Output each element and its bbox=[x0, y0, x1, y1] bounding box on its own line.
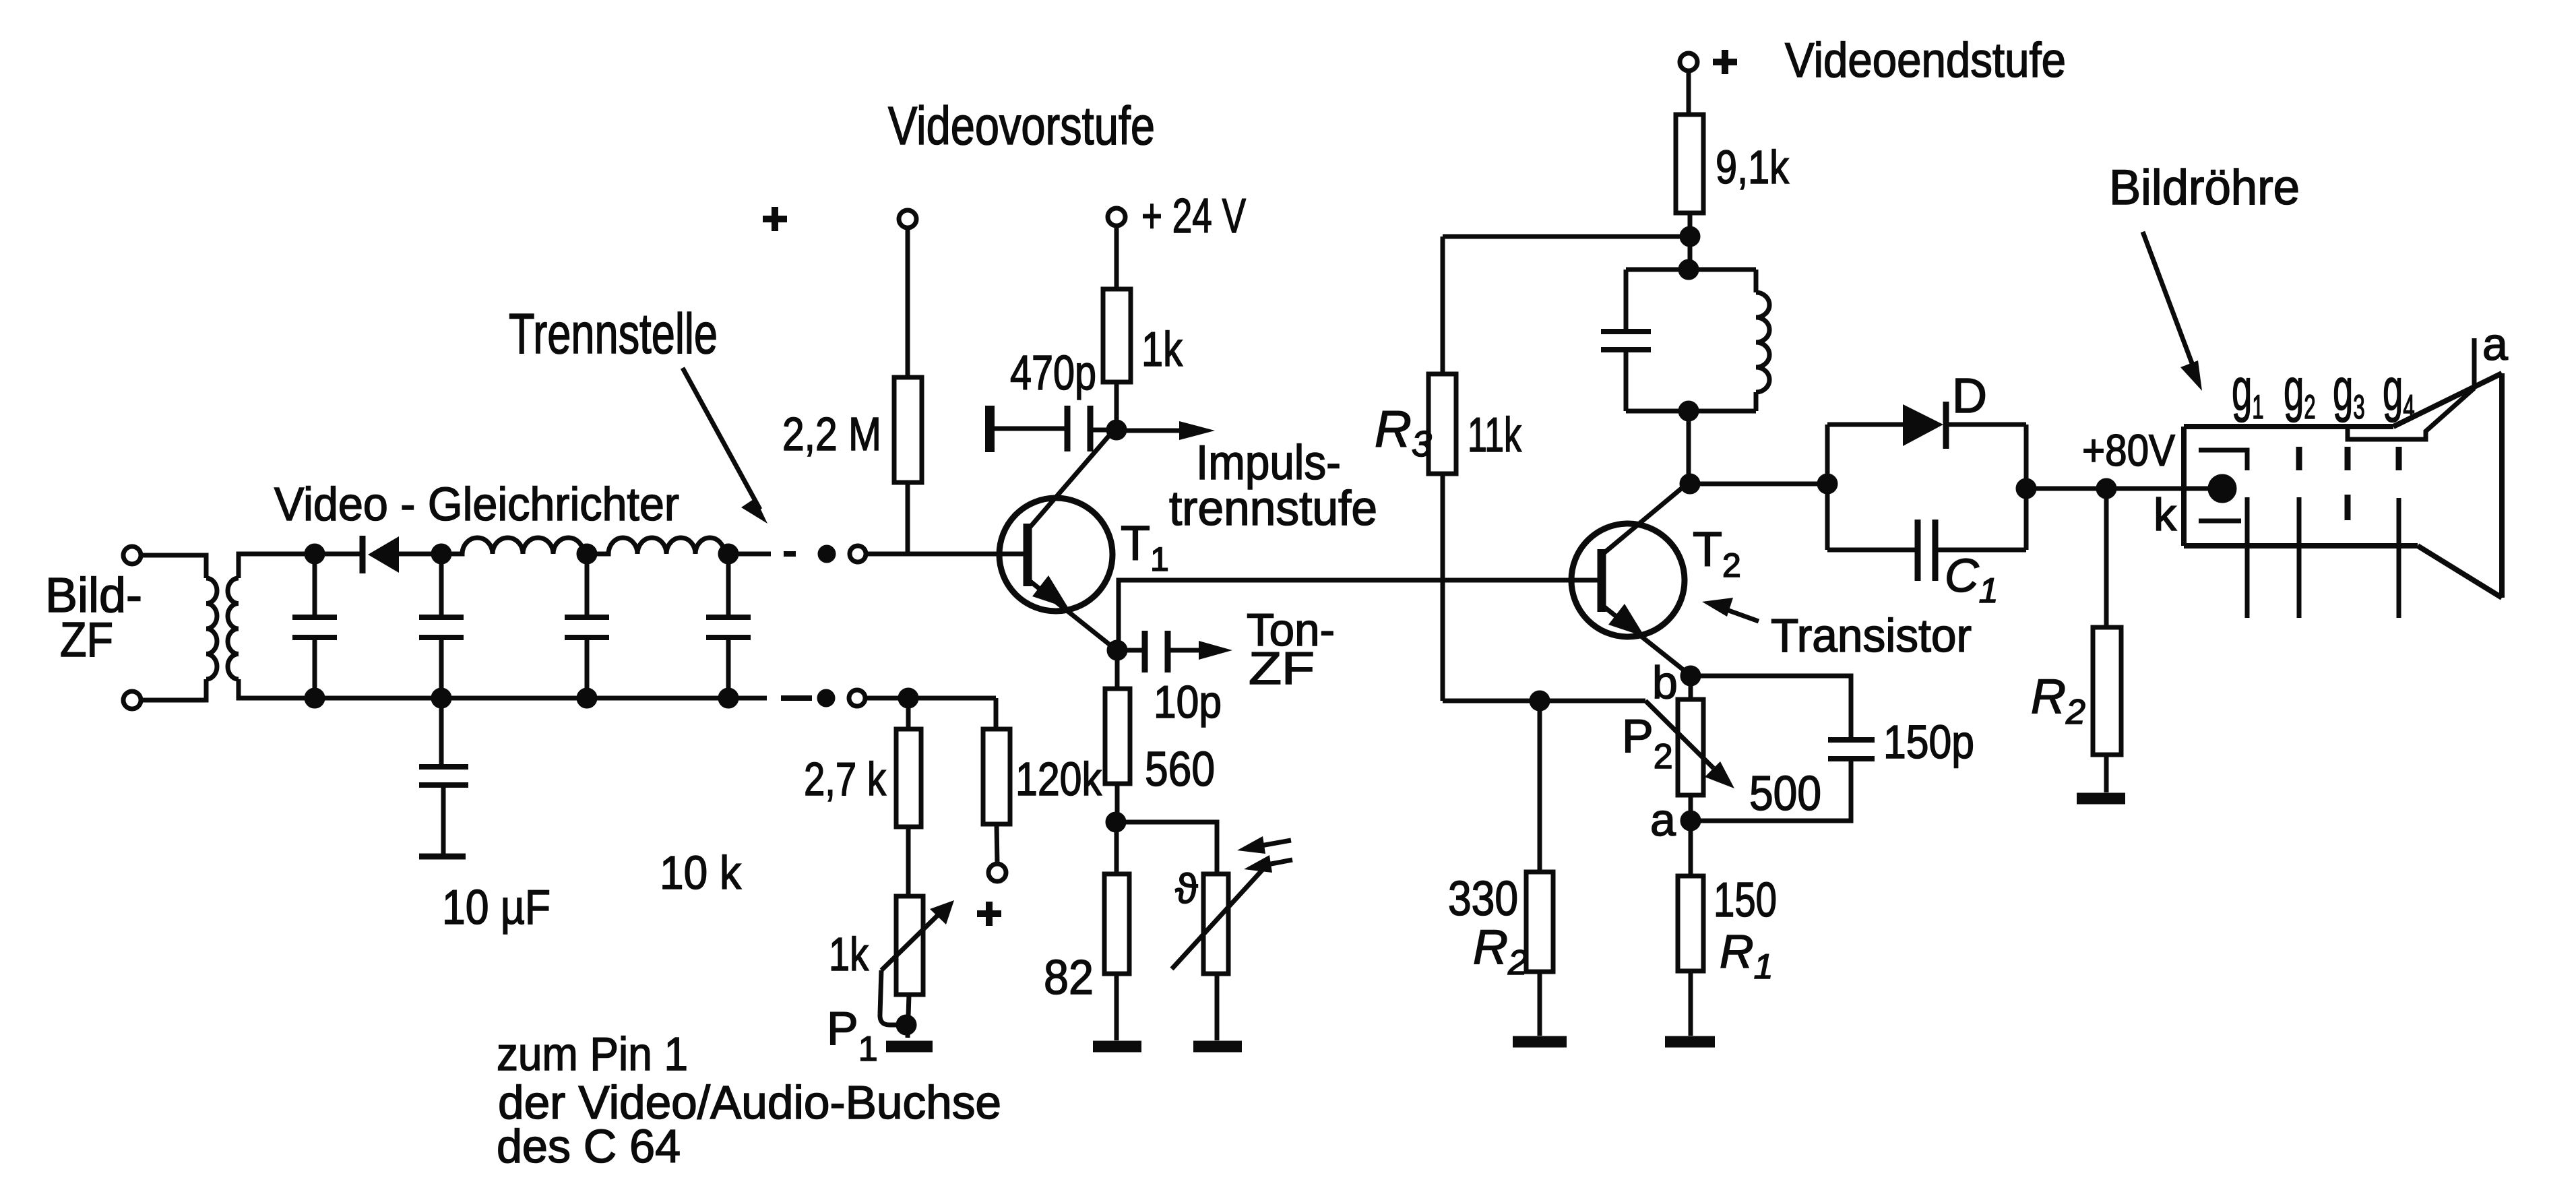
svg-text:Transistor: Transistor bbox=[1771, 609, 1972, 662]
terminal circle below 120k bbox=[988, 864, 1006, 881]
node: bottom rail junction 4 bbox=[720, 690, 736, 706]
capacitor filter C-d bottom lead bbox=[726, 639, 731, 698]
resistor 560 body bbox=[1105, 689, 1130, 784]
tank circuit bottom side bbox=[1626, 409, 1756, 414]
wire b node to P2 bbox=[1689, 676, 1693, 699]
node: 560/82 junction bbox=[1108, 814, 1124, 830]
plus sign at Videoendstufe terminal bbox=[1713, 50, 1737, 74]
resistor 1k body (T1 collector) bbox=[1103, 289, 1131, 382]
node: top rail junction 2 bbox=[433, 546, 449, 562]
tank circuit top side bbox=[1626, 268, 1756, 272]
transistor T2 emitter lead bbox=[1604, 606, 1689, 675]
Videoendstufe supply terminal bbox=[1680, 53, 1697, 71]
svg-text:T2: T2 bbox=[1693, 523, 1741, 584]
capacitor 10uF bottom lead bbox=[441, 787, 446, 854]
+24V terminal circle bbox=[1108, 208, 1125, 226]
node: T1 emitter junction bbox=[1109, 642, 1125, 658]
svg-text:D: D bbox=[1952, 369, 1987, 423]
node: top rail junction 3 bbox=[579, 546, 595, 562]
resistor 330 R2 body bbox=[1526, 872, 1553, 972]
wire 2.2M to signal rail bbox=[906, 482, 910, 552]
svg-text:zum Pin 1: zum Pin 1 bbox=[497, 1028, 688, 1080]
transistor T1 base lead bbox=[1019, 552, 1032, 557]
capacitor 150p plates bbox=[1828, 740, 1875, 759]
capacitor filter C-a plates bbox=[292, 617, 337, 637]
plus sign near 2.2M terminal bbox=[763, 207, 787, 231]
ground P1 bbox=[886, 1041, 933, 1053]
svg-text:120k: 120k bbox=[1015, 753, 1102, 805]
resistor 82 body bbox=[1104, 874, 1129, 974]
svg-text:82: 82 bbox=[1044, 951, 1094, 1005]
transformer primary winding bbox=[206, 578, 217, 679]
wire 150 to ground bbox=[1689, 971, 1693, 1036]
wire junction to thermistor bbox=[1116, 822, 1217, 874]
node: bottom rail junction 2 bbox=[433, 690, 449, 706]
transistor T1 base bar bbox=[1024, 524, 1032, 586]
svg-text:Bildröhre: Bildröhre bbox=[2109, 160, 2300, 215]
svg-text:ϑ: ϑ bbox=[1175, 866, 1198, 912]
CRT anode lead a bbox=[2472, 338, 2477, 388]
node: T2 emitter junction b bbox=[1683, 668, 1699, 684]
capacitor C1 plates bbox=[1918, 520, 1935, 581]
grid g4 dash bbox=[2396, 447, 2402, 470]
node: T1 collector junction bbox=[1108, 422, 1125, 438]
thermistor light arrows bbox=[1257, 840, 1291, 846]
svg-text:R2: R2 bbox=[1473, 920, 1528, 982]
wire top rail to Trennstelle gap bbox=[728, 552, 771, 557]
wire emitter node to 10p bbox=[1117, 648, 1142, 653]
D / C1 parallel box left side bbox=[1825, 425, 1830, 550]
D/C1 box right side bbox=[2024, 425, 2029, 550]
svg-text:trennstufe: trennstufe bbox=[1169, 482, 1377, 536]
transistor T2 base lead bbox=[1599, 578, 1606, 583]
ground thermistor bbox=[1193, 1041, 1242, 1053]
wire terminal to 9.1k bbox=[1687, 71, 1691, 115]
arrow to Ton-ZF bbox=[1170, 648, 1203, 653]
svg-text:a: a bbox=[1650, 794, 1676, 846]
Trennstelle dash mark bottom rail bbox=[781, 695, 812, 701]
transistor T2 collector lead bbox=[1604, 482, 1689, 553]
svg-text:500: 500 bbox=[1749, 767, 1821, 821]
node: bottom rail junction for 2.7k bbox=[900, 690, 916, 706]
wire R2 to ground bbox=[2104, 755, 2109, 792]
wire 330 to ground bbox=[1538, 972, 1542, 1036]
capacitor filter C-b bottom lead bbox=[439, 639, 444, 698]
capacitor filter C-a bottom lead bbox=[313, 639, 317, 698]
CRT screen right edge bbox=[2499, 373, 2505, 598]
grid g1 lower arm bbox=[2199, 519, 2241, 524]
wire top rail to T1 base bbox=[867, 552, 1019, 557]
CRT flare bottom diagonal bbox=[2418, 546, 2502, 598]
grid g2 lead bbox=[2297, 497, 2302, 618]
transistor T2 circle bbox=[1571, 524, 1685, 637]
svg-text:2,2 M: 2,2 M bbox=[782, 408, 881, 460]
grid g4 lead bbox=[2397, 498, 2401, 618]
CRT neck left wall bbox=[2181, 427, 2187, 546]
capacitor filter C-c top lead bbox=[585, 554, 590, 615]
wire terminal to 2.2M resistor bbox=[906, 228, 910, 377]
svg-text:10 k: 10 k bbox=[660, 846, 742, 899]
wire P2 bottom to a node bbox=[1689, 795, 1693, 821]
svg-text:560: 560 bbox=[1145, 743, 1215, 796]
node: T2 collector junction bbox=[1682, 476, 1698, 492]
Trennstelle dot bottom rail bbox=[819, 691, 833, 705]
D/C1 box bottom side bbox=[1827, 548, 2026, 553]
capacitor 10uF top lead bbox=[439, 698, 444, 765]
grid g1 top bracket bbox=[2199, 450, 2247, 470]
node: filter cap1 top junction bbox=[307, 546, 323, 562]
node: +80V junction bbox=[2098, 480, 2114, 497]
ground 330 bbox=[1513, 1036, 1567, 1048]
resistor R3 11k bottom lead bbox=[1441, 474, 1445, 701]
wire input top to transformer primary bbox=[141, 555, 206, 578]
Trennstelle dash mark top rail bbox=[784, 551, 796, 557]
wire junction to R3 top bbox=[1443, 234, 1690, 239]
CRT cathode dot k bbox=[2210, 476, 2234, 501]
wire bottom rail corner to 120k bbox=[994, 698, 999, 729]
svg-text:b: b bbox=[1652, 657, 1678, 708]
tank capacitor bottom lead bbox=[1624, 352, 1629, 411]
svg-text:470p: 470p bbox=[1010, 346, 1096, 400]
svg-text:1k: 1k bbox=[1141, 323, 1183, 377]
tank inductor winding bbox=[1756, 292, 1769, 392]
supply terminal above 2.2M bbox=[899, 210, 916, 228]
capacitor 470p termination bar bbox=[985, 406, 995, 452]
svg-text:a: a bbox=[2482, 319, 2508, 370]
resistor R2 right body bbox=[2093, 627, 2121, 755]
Trennstelle dot top rail bbox=[820, 547, 834, 561]
svg-text:g3: g3 bbox=[2333, 356, 2365, 426]
ground R2 right bbox=[2077, 793, 2125, 805]
transistor T1 emitter lead bbox=[1030, 581, 1116, 650]
transistor T2 emitter arrowhead bbox=[1608, 604, 1645, 637]
resistor R3 11k top lead bbox=[1441, 237, 1445, 374]
Trennstelle open circle bottom rail bbox=[849, 690, 865, 706]
svg-text:Videoendstufe: Videoendstufe bbox=[1785, 34, 2066, 88]
svg-text:g1: g1 bbox=[2232, 356, 2264, 426]
diode Video-Gleichrichter triangle bbox=[368, 536, 399, 573]
wire R3 bottom feed to P2 wiper bbox=[1443, 699, 1645, 703]
resistor 9.1k body bbox=[1676, 115, 1703, 213]
svg-text:C1: C1 bbox=[1945, 549, 1998, 610]
svg-text:150: 150 bbox=[1714, 873, 1777, 927]
input terminal top (Bild-ZF) bbox=[123, 546, 141, 564]
resistor 2.2M body bbox=[894, 377, 922, 482]
P2 wiper diagonal arrow bbox=[1645, 701, 1714, 768]
Transistor pointer arrow bbox=[1725, 609, 1759, 621]
node: tank circuit top junction bbox=[1680, 261, 1697, 278]
wire emitter node up and right to T2 base bbox=[1119, 580, 1599, 650]
transistor T1 circle bbox=[999, 498, 1112, 611]
potentiometer P2 500 body bbox=[1678, 699, 1703, 795]
potentiometer P1 1k body bbox=[896, 896, 923, 995]
inductor L2 top rail bbox=[587, 538, 724, 554]
grid g1 lead bbox=[2245, 497, 2250, 618]
capacitor 470p plates bbox=[1067, 406, 1090, 451]
resistor 120k body bbox=[983, 729, 1010, 824]
wire a node to 150 R1 bbox=[1689, 821, 1693, 876]
capacitor 10uF plates bbox=[419, 767, 468, 785]
inductor L1 top rail bbox=[441, 538, 584, 554]
node: tank bottom junction bbox=[1680, 403, 1697, 419]
wire b node to 150p top bbox=[1691, 676, 1851, 738]
capacitor 10uF end bar bbox=[419, 854, 466, 860]
capacitor filter C-c bottom lead bbox=[585, 639, 590, 698]
svg-text:+80V: +80V bbox=[2082, 425, 2175, 475]
wire junction to 82 bbox=[1114, 822, 1119, 874]
Bildroehre pointer arrow bbox=[2143, 232, 2192, 363]
node: D/C1 left junction bbox=[1819, 476, 1835, 492]
input terminal bottom (Bild-ZF) bbox=[123, 691, 141, 709]
svg-text:1k: 1k bbox=[829, 928, 869, 980]
arrow to Impulstrennstufe bbox=[1123, 429, 1183, 433]
wire 82 to ground bbox=[1114, 974, 1119, 1040]
wire junction to 2.7k bbox=[906, 698, 911, 729]
wire top rail cap1 to diode bbox=[315, 552, 360, 557]
CRT flare top diagonal bbox=[2393, 373, 2502, 427]
tank inductor top lead bbox=[1754, 270, 1759, 292]
diode D triangle bbox=[1903, 404, 1943, 446]
tank capacitor top lead bbox=[1624, 270, 1629, 330]
node: bottom rail junction 3 bbox=[579, 690, 595, 706]
wire 9.1k to collector top node bbox=[1688, 213, 1693, 268]
capacitor filter C-d plates bbox=[706, 617, 751, 637]
svg-text:10p: 10p bbox=[1154, 677, 1222, 728]
wire bar to 470p bbox=[995, 427, 1065, 431]
CRT neck bottom edge bbox=[2184, 543, 2418, 549]
capacitor filter C-b top lead bbox=[439, 554, 444, 615]
wire to +80V node and CRT cathode bbox=[2026, 487, 2214, 491]
Trennstelle pointer arrow bbox=[683, 368, 760, 509]
wire junction to 330 bbox=[1538, 701, 1542, 872]
wire secondary bottom to rail bbox=[239, 679, 315, 698]
resistor R3 11k body bbox=[1428, 374, 1456, 474]
transistor T2 base bar bbox=[1598, 549, 1606, 612]
wire +24V to 1k bbox=[1114, 226, 1119, 289]
wire 1k to collector node bbox=[1114, 382, 1119, 430]
ground 150 bbox=[1665, 1036, 1715, 1048]
P1 wiper wire to bottom bbox=[880, 970, 902, 1025]
svg-text:P1: P1 bbox=[827, 1002, 878, 1069]
svg-text:Trennstelle: Trennstelle bbox=[509, 302, 718, 365]
capacitor filter C-c plates bbox=[565, 617, 609, 637]
svg-text:g4: g4 bbox=[2383, 356, 2415, 426]
node: top rail junction 4 bbox=[720, 546, 736, 562]
plus sign below 120k terminal bbox=[977, 902, 1001, 926]
wire diode to node2 bbox=[399, 552, 441, 557]
wire bottom rail spans bbox=[315, 696, 767, 701]
thermistor diagonal stroke bbox=[1172, 867, 1265, 969]
svg-text:Videovorstufe: Videovorstufe bbox=[888, 96, 1155, 156]
svg-text:9,1k: 9,1k bbox=[1716, 141, 1790, 193]
wire 150p bottom to a node bbox=[1691, 761, 1851, 821]
P1 arrow through body bbox=[881, 912, 941, 970]
capacitor filter C-b plates bbox=[419, 617, 464, 637]
capacitor 10p plates bbox=[1145, 631, 1168, 672]
capacitor filter C-a top lead bbox=[313, 554, 317, 615]
wire P1 bottom to ground bbox=[908, 995, 909, 1038]
capacitor filter C-d top lead bbox=[726, 554, 731, 615]
node: filter cap1 bottom junction bbox=[307, 690, 323, 706]
svg-text:k: k bbox=[2154, 489, 2177, 540]
transistor T1 collector lead bbox=[1030, 429, 1115, 528]
svg-text:des C 64: des C 64 bbox=[497, 1120, 681, 1172]
wire collector node to D/C1 bbox=[1690, 482, 1827, 487]
svg-text:11k: 11k bbox=[1468, 408, 1522, 462]
wire emitter node to 560 bbox=[1115, 650, 1120, 689]
ground 82 bbox=[1093, 1041, 1141, 1053]
tank inductor bottom lead bbox=[1754, 392, 1759, 411]
svg-text:T1: T1 bbox=[1121, 517, 1169, 578]
wire bottom rail resume bbox=[866, 696, 996, 701]
node: 330 junction on feed line bbox=[1532, 693, 1548, 709]
wire 470p to collector node bbox=[1093, 428, 1112, 433]
wire thermistor to ground bbox=[1215, 974, 1220, 1040]
diode Video-Gleichrichter cathode bar bbox=[360, 536, 366, 573]
svg-text:g2: g2 bbox=[2284, 356, 2316, 426]
transistor T1 emitter arrowhead bbox=[1032, 575, 1069, 608]
Trennstelle open circle top rail bbox=[850, 546, 866, 562]
wire 560 to node bbox=[1115, 784, 1120, 822]
diode D cathode bar bbox=[1943, 402, 1949, 449]
svg-text:ZF: ZF bbox=[60, 613, 113, 667]
resistor 2.7k body bbox=[896, 729, 921, 827]
D/C1 box top side bbox=[1827, 422, 2026, 427]
svg-text:+ 24 V: + 24 V bbox=[1141, 189, 1246, 243]
wire tank to T2 collector node bbox=[1687, 411, 1691, 484]
svg-text:150p: 150p bbox=[1883, 716, 1974, 768]
wire 2.7k to P1 bbox=[906, 827, 911, 896]
wire 120k to terminal bbox=[997, 824, 997, 864]
node: a junction bbox=[1683, 813, 1699, 829]
CRT neck top edge bbox=[2184, 424, 2393, 429]
svg-text:R2: R2 bbox=[2031, 670, 2085, 732]
wire +80V node to R2 bbox=[2104, 489, 2109, 627]
CRT anode internal strip bbox=[2348, 388, 2474, 439]
grid g3 dashes bbox=[2345, 447, 2351, 520]
svg-text:Video - Gleichrichter: Video - Gleichrichter bbox=[274, 478, 679, 530]
node: 9.1k / R3 junction bbox=[1682, 228, 1698, 245]
grid g2 dash bbox=[2296, 447, 2302, 470]
transformer secondary winding bbox=[228, 578, 239, 679]
svg-text:10 µF: 10 µF bbox=[442, 881, 551, 935]
node: P1 wiper junction bbox=[898, 1017, 914, 1033]
svg-text:R1: R1 bbox=[1720, 925, 1773, 987]
svg-text:330: 330 bbox=[1448, 872, 1518, 926]
node: D/C1 right junction bbox=[2018, 480, 2034, 497]
svg-text:ZF: ZF bbox=[1249, 643, 1315, 694]
resistor 150 R1 body bbox=[1678, 876, 1703, 971]
wire secondary top to rail bbox=[239, 554, 315, 578]
wire input bottom to transformer primary bbox=[141, 679, 206, 700]
thermistor body bbox=[1203, 874, 1228, 974]
svg-text:R3: R3 bbox=[1375, 401, 1432, 464]
svg-text:2,7 k: 2,7 k bbox=[804, 753, 887, 805]
tank capacitor plates bbox=[1601, 332, 1651, 350]
